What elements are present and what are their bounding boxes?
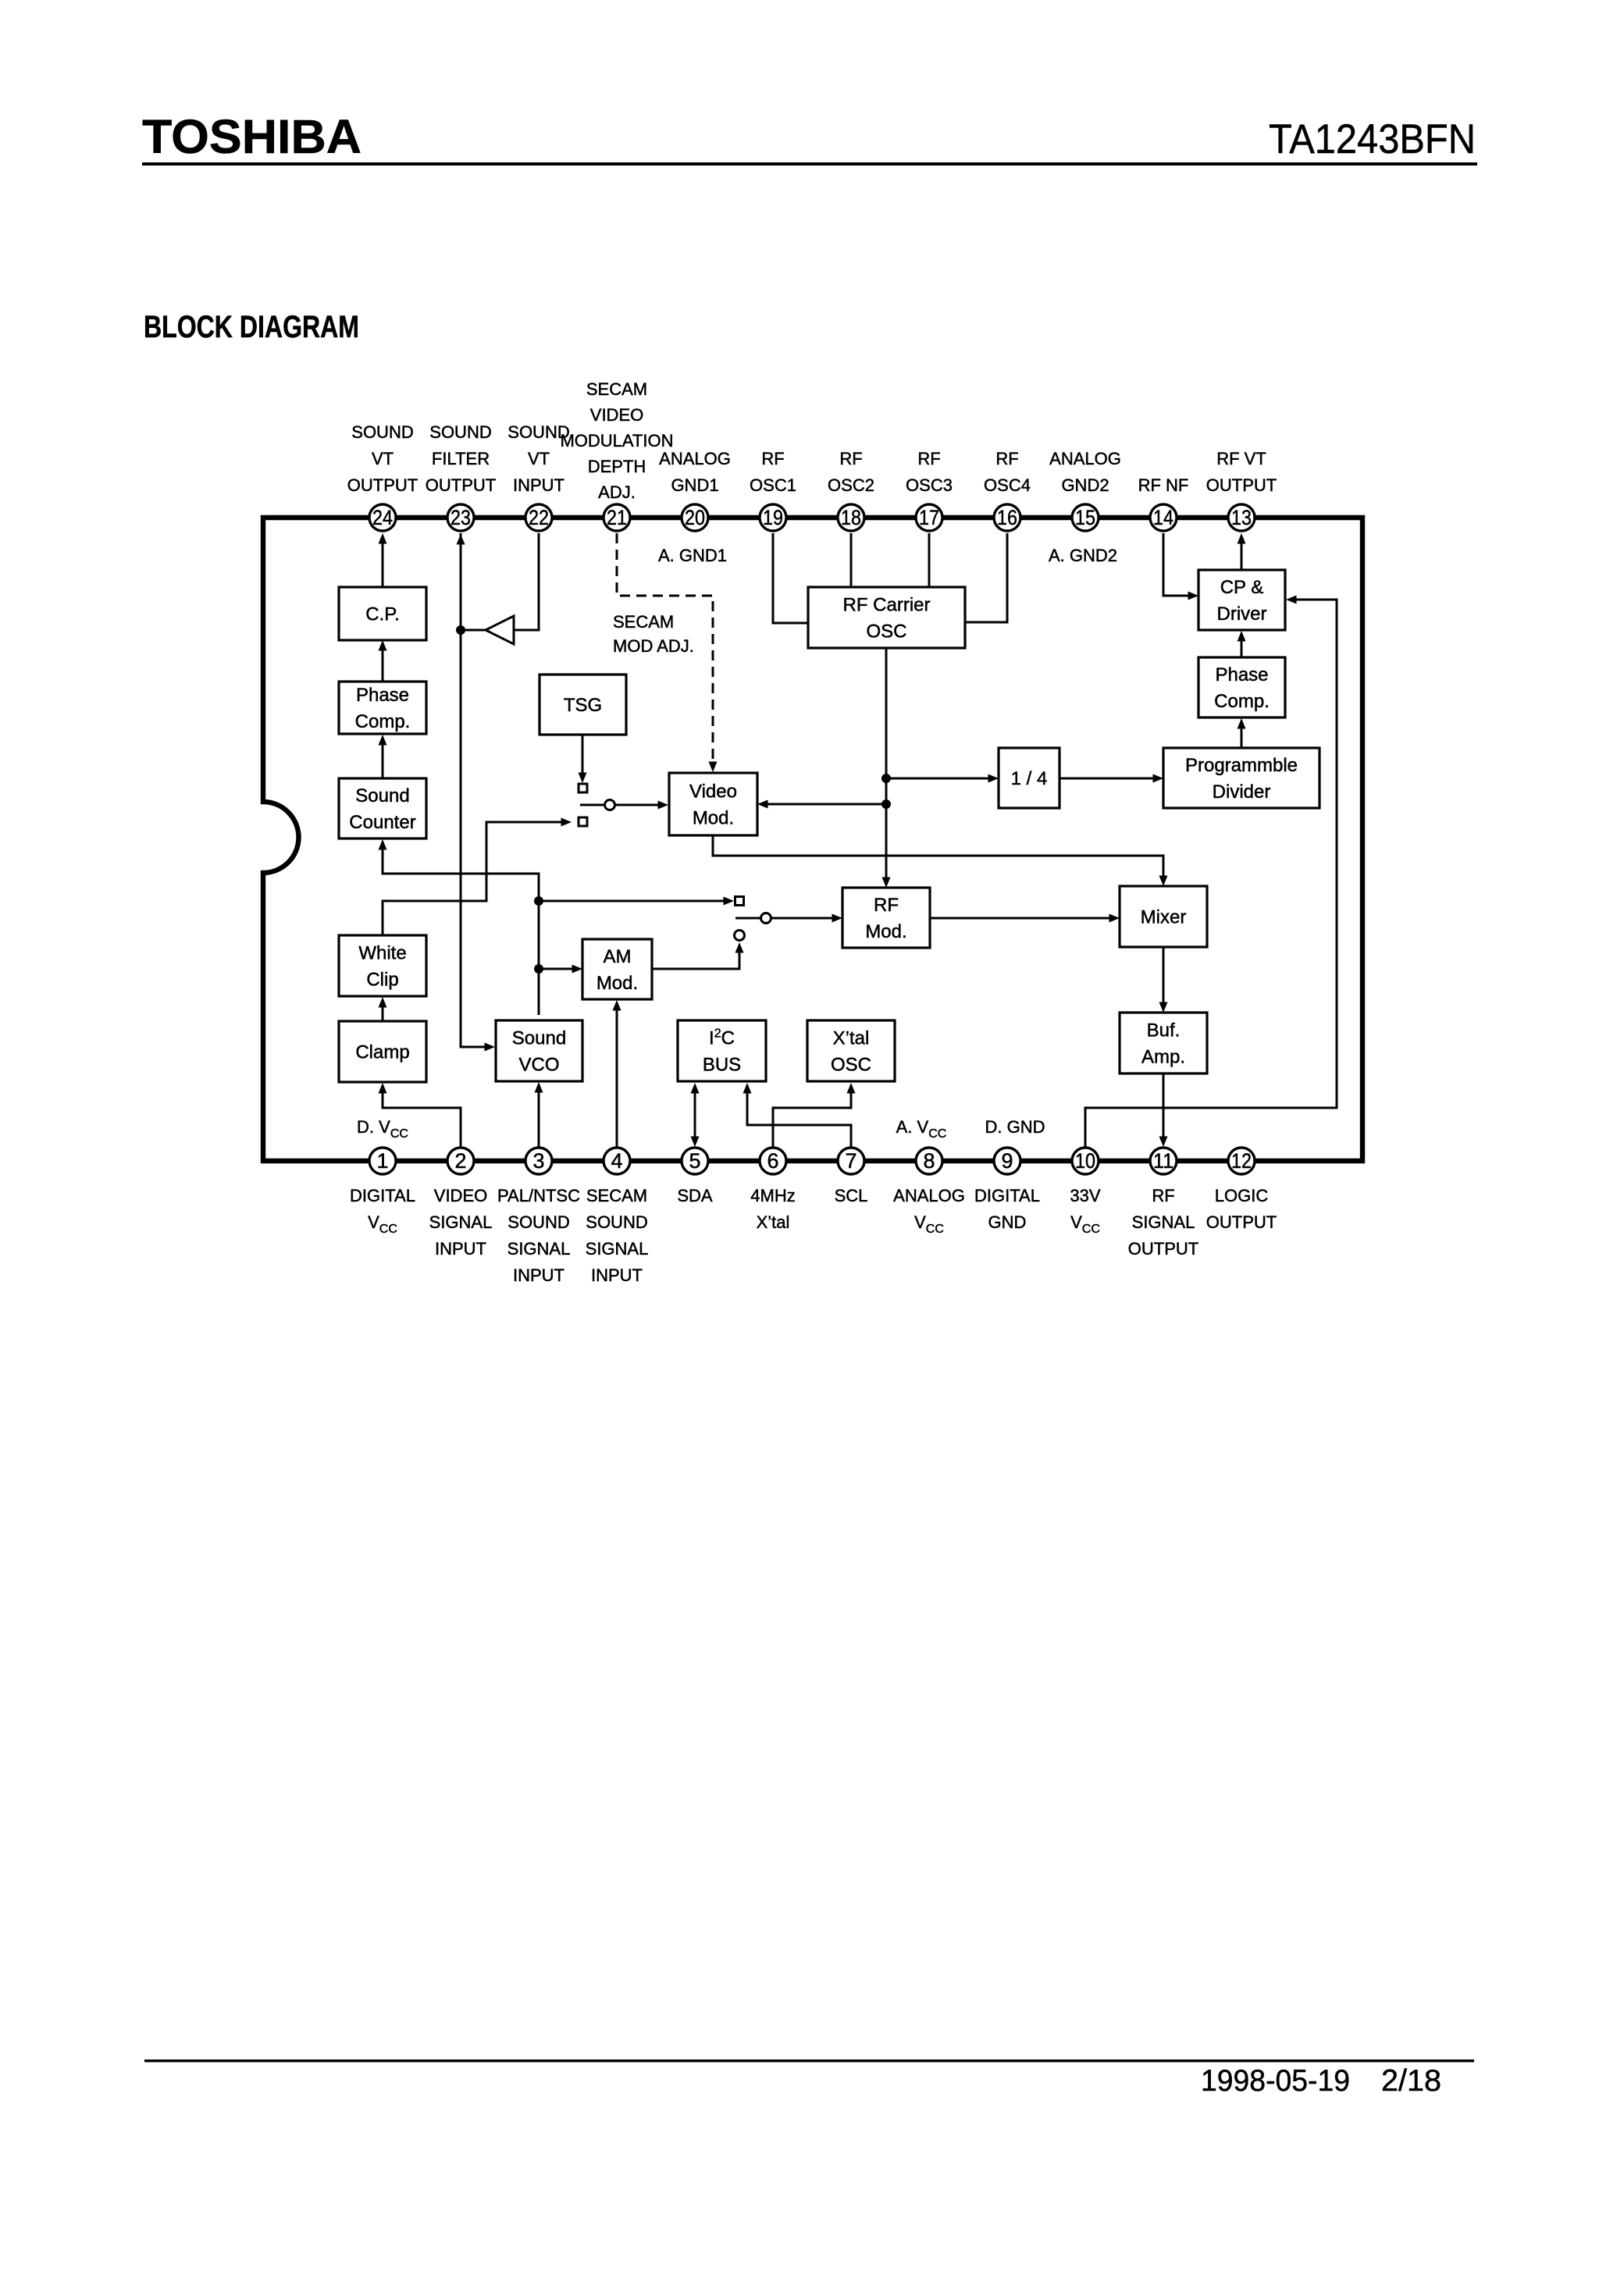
svg-text:OSC: OSC	[866, 621, 906, 643]
svg-text:RF VT: RF VT	[1216, 449, 1266, 468]
net label A. GND2	[1049, 546, 1117, 565]
svg-text:RF: RF	[839, 449, 862, 468]
wire Mixer to Buf. Amp.	[1159, 947, 1168, 1013]
svg-text:22: 22	[529, 506, 549, 529]
pin 1 label DIGITAL VCC	[350, 1186, 415, 1236]
svg-text:9: 9	[1001, 1149, 1013, 1173]
wire Clamp to White Clip	[379, 997, 387, 1021]
block Sound VCO	[496, 1020, 582, 1081]
svg-text:SECAM: SECAM	[613, 612, 674, 632]
wire Buf. Amp. to pin 11	[1159, 1073, 1168, 1147]
pin 11	[1150, 1148, 1177, 1174]
svg-text:GND1: GND1	[671, 475, 718, 495]
svg-text:CP &: CP &	[1220, 577, 1264, 598]
pin 21 label SECAM VIDEO MODULATION DEPTH ADJ.	[560, 379, 673, 502]
pin 17 label RF OSC3	[906, 449, 953, 495]
svg-text:16: 16	[997, 506, 1017, 529]
svg-text:Comp.: Comp.	[1214, 691, 1270, 712]
block Phase Comp. left	[339, 682, 426, 734]
pin 2	[447, 1148, 474, 1174]
svg-text:DIGITAL: DIGITAL	[350, 1186, 415, 1205]
svg-text:OSC: OSC	[831, 1055, 871, 1076]
pin 19 label RF OSC1	[750, 449, 796, 495]
svg-text:3: 3	[532, 1149, 544, 1173]
wire RF switch lever to RF Mod.	[735, 914, 842, 923]
block TSG	[540, 675, 626, 735]
pin 1	[369, 1148, 396, 1174]
block AM Mod.	[582, 939, 652, 999]
svg-text:ANALOG: ANALOG	[893, 1186, 965, 1205]
svg-text:Mixer: Mixer	[1141, 907, 1187, 928]
svg-text:VIDEO: VIDEO	[590, 405, 643, 425]
pin 7	[838, 1148, 864, 1174]
pin 3 label PAL/NTSC SOUND SIGNAL INPUT	[497, 1186, 580, 1285]
pin 3	[525, 1148, 552, 1174]
svg-text:OUTPUT: OUTPUT	[1206, 1212, 1277, 1232]
block White Clip	[339, 935, 426, 996]
wire pin 16 to RF Carrier OSC	[965, 533, 1007, 622]
svg-text:24: 24	[372, 506, 393, 529]
pin 7 label SCL	[835, 1186, 868, 1205]
svg-text:BLOCK DIAGRAM: BLOCK DIAGRAM	[144, 310, 359, 344]
svg-text:Driver: Driver	[1217, 603, 1267, 625]
svg-text:INPUT: INPUT	[435, 1239, 486, 1258]
svg-text:Sound: Sound	[355, 785, 409, 806]
wire RF Mod. to Mixer	[930, 914, 1120, 923]
wire Sound VCO to Sound Counter	[379, 839, 540, 1015]
block X'tal OSC	[807, 1020, 895, 1081]
svg-text:TOSHIBA: TOSHIBA	[142, 110, 361, 163]
wire pin 22 to buffer	[515, 533, 539, 630]
svg-text:VT: VT	[528, 449, 550, 468]
svg-text:A. GND1: A. GND1	[658, 546, 727, 565]
svg-text:OUTPUT: OUTPUT	[1206, 475, 1277, 495]
pin 15 label ANALOG GND2	[1049, 449, 1121, 495]
wire Video Mod. to Mixer	[713, 835, 1168, 886]
wire pin 5 to I2C BUS bidirectional	[691, 1083, 700, 1147]
svg-text:18: 18	[841, 506, 861, 529]
svg-text:SIGNAL: SIGNAL	[429, 1212, 493, 1232]
wire AM Mod. to RF switch contact	[652, 942, 744, 969]
svg-text:23: 23	[451, 506, 471, 529]
svg-text:RF: RF	[1152, 1186, 1174, 1205]
block 1/4 divider	[999, 748, 1060, 808]
pin 11 label RF SIGNAL OUTPUT	[1128, 1186, 1198, 1258]
pin 13 label RF VT OUTPUT	[1206, 449, 1277, 495]
svg-text:OUTPUT: OUTPUT	[426, 475, 496, 495]
svg-text:Mod.: Mod.	[865, 921, 906, 942]
svg-text:SOUND: SOUND	[586, 1212, 647, 1232]
video switch lever pivot	[605, 800, 615, 810]
wire pin 17 to RF Carrier OSC	[928, 533, 931, 587]
pin 12	[1228, 1148, 1255, 1174]
svg-text:FILTER: FILTER	[432, 449, 490, 468]
svg-text:SOUND: SOUND	[507, 1212, 569, 1232]
pin 21	[604, 504, 630, 531]
svg-text:10: 10	[1075, 1149, 1095, 1173]
svg-text:6: 6	[767, 1149, 778, 1173]
svg-text:ANALOG: ANALOG	[1049, 449, 1121, 468]
svg-text:I2C: I2C	[709, 1027, 735, 1049]
svg-text:GND2: GND2	[1061, 475, 1109, 495]
pin 23	[447, 504, 474, 531]
svg-text:INPUT: INPUT	[513, 475, 564, 495]
svg-text:ADJ.: ADJ.	[598, 482, 636, 502]
svg-text:11: 11	[1153, 1149, 1173, 1173]
svg-text:BUS: BUS	[703, 1055, 741, 1076]
svg-text:TSG: TSG	[564, 695, 602, 716]
svg-text:15: 15	[1075, 506, 1095, 529]
svg-text:X’tal: X’tal	[833, 1028, 870, 1049]
svg-text:AM: AM	[604, 946, 632, 967]
svg-text:Divider: Divider	[1213, 781, 1271, 803]
block Mixer	[1120, 886, 1207, 947]
dashed wire pin 21 SECAM mod adj to Video Mod.	[617, 533, 718, 772]
svg-text:SIGNAL: SIGNAL	[507, 1239, 571, 1258]
junction dot buffer output	[456, 625, 465, 635]
svg-text:12: 12	[1231, 1149, 1252, 1173]
wire pin 10 33V feedback to CP & Driver	[1085, 596, 1337, 1148]
svg-text:GND: GND	[988, 1212, 1027, 1232]
svg-text:Mod.: Mod.	[693, 808, 734, 829]
svg-text:RF: RF	[995, 449, 1018, 468]
wire sound line to RF switch contact	[539, 897, 734, 906]
pin 10	[1072, 1148, 1099, 1174]
pin 16 label RF OSC4	[984, 449, 1031, 495]
svg-text:13: 13	[1231, 506, 1252, 529]
wire I2C BUS to pin 7 SCL	[743, 1083, 852, 1147]
svg-text:Counter: Counter	[349, 812, 415, 833]
video switch contact from White Clip	[579, 817, 587, 826]
svg-text:MOD ADJ.: MOD ADJ.	[613, 636, 694, 656]
net label D. GND	[985, 1117, 1045, 1137]
pin 2 label VIDEO SIGNAL INPUT	[429, 1186, 493, 1258]
wire RF Carrier OSC to RF Mod.	[882, 648, 891, 888]
pin 22	[525, 504, 552, 531]
wire Programmble Divider to Phase Comp.	[1238, 718, 1246, 748]
pin 8 label ANALOG VCC	[893, 1186, 965, 1236]
pin 5 label SDA	[677, 1186, 713, 1205]
part number TA1243BFN	[1269, 116, 1476, 162]
svg-text:Mod.: Mod.	[597, 973, 638, 994]
svg-text:VCO: VCO	[518, 1055, 559, 1076]
svg-text:20: 20	[685, 506, 705, 529]
svg-text:RF: RF	[761, 449, 784, 468]
net label SECAM MOD ADJ.	[613, 612, 694, 656]
wire buffer output stub	[461, 629, 486, 632]
svg-text:OSC2: OSC2	[828, 475, 874, 495]
svg-text:SOUND: SOUND	[351, 422, 413, 442]
svg-text:Phase: Phase	[356, 685, 409, 706]
svg-text:INPUT: INPUT	[513, 1266, 564, 1285]
wire pin 19 to RF Carrier OSC	[773, 533, 808, 623]
footer rule	[144, 2059, 1474, 2062]
svg-text:SCL: SCL	[835, 1186, 868, 1205]
pin 13	[1228, 504, 1255, 531]
svg-text:OSC1: OSC1	[750, 475, 796, 495]
Toshiba logo text	[142, 110, 361, 163]
svg-text:OSC3: OSC3	[906, 475, 953, 495]
svg-text:1998-05-19: 1998-05-19	[1201, 2064, 1350, 2098]
wire Phase Comp. to CP & Driver	[1238, 631, 1246, 657]
wire carrier to 1/4 divider	[886, 774, 999, 783]
IC body outline with index notch	[263, 518, 1362, 1161]
junction dot carrier to divider	[881, 774, 891, 783]
title BLOCK DIAGRAM	[144, 310, 359, 344]
RF switch contact from sound line	[735, 897, 744, 906]
pin 19	[760, 504, 786, 531]
svg-text:7: 7	[845, 1149, 857, 1173]
pin 20	[682, 504, 708, 531]
svg-text:5: 5	[689, 1149, 700, 1173]
svg-text:8: 8	[923, 1149, 935, 1173]
svg-text:TA1243BFN: TA1243BFN	[1269, 116, 1476, 162]
svg-text:DEPTH: DEPTH	[588, 457, 646, 476]
footer date and page	[1201, 2064, 1441, 2098]
svg-text:ANALOG: ANALOG	[659, 449, 731, 468]
svg-text:DIGITAL: DIGITAL	[974, 1186, 1040, 1205]
junction dot sound line upper	[534, 896, 543, 906]
wire Sound Counter to Phase Comp.	[379, 735, 387, 778]
video switch contact from TSG	[579, 784, 587, 792]
svg-text:21: 21	[607, 506, 627, 529]
header rule	[142, 162, 1477, 166]
pin 8	[916, 1148, 942, 1174]
svg-text:SIGNAL: SIGNAL	[1132, 1212, 1195, 1232]
svg-text:OUTPUT: OUTPUT	[347, 475, 418, 495]
svg-text:14: 14	[1153, 506, 1173, 529]
svg-text:Clip: Clip	[366, 970, 398, 991]
pin 16	[994, 504, 1020, 531]
pin 14 label RF NF	[1138, 475, 1189, 495]
svg-text:SDA: SDA	[677, 1186, 713, 1205]
pin 18 label RF OSC2	[828, 449, 874, 495]
junction dot sound line lower	[534, 964, 543, 974]
svg-text:Sound: Sound	[512, 1028, 566, 1049]
wire pin 3 to Sound VCO	[535, 1082, 543, 1147]
pin 10 label 33V VCC	[1070, 1186, 1100, 1236]
pin 17	[916, 504, 942, 531]
svg-text:4MHz: 4MHz	[750, 1186, 795, 1205]
block Video Mod.	[669, 773, 757, 835]
block CP & Driver	[1198, 570, 1285, 630]
svg-text:2/18: 2/18	[1381, 2064, 1441, 2098]
svg-text:MODULATION: MODULATION	[560, 431, 673, 450]
net label A. GND1	[658, 546, 727, 565]
wire 1/4 to Programmble Divider	[1060, 774, 1163, 783]
RF switch contact from AM Mod.	[735, 931, 745, 941]
pin 5	[682, 1148, 708, 1174]
pin 6 label 4MHz X'tal	[750, 1186, 795, 1232]
svg-text:Buf.: Buf.	[1147, 1020, 1181, 1041]
RF switch lever pivot	[761, 913, 771, 924]
pin 15	[1072, 504, 1099, 531]
pin 4	[604, 1148, 630, 1174]
block Phase Comp. right	[1198, 657, 1285, 717]
pin 24 label SOUND VT OUTPUT	[347, 422, 418, 495]
pin 4 label SECAM SOUND SIGNAL INPUT	[586, 1186, 649, 1285]
svg-text:X’tal: X’tal	[757, 1212, 790, 1232]
svg-text:RF NF: RF NF	[1138, 475, 1189, 495]
wire pin 23 to Sound VCO	[457, 533, 496, 1052]
svg-text:Video: Video	[689, 781, 737, 803]
net label A. VCC	[896, 1117, 947, 1141]
wire sound line to AM Mod.	[539, 965, 582, 974]
wire pin 4 to AM Mod.	[613, 1000, 621, 1147]
svg-text:33V: 33V	[1070, 1186, 1100, 1205]
pin 23 label SOUND FILTER OUTPUT	[426, 422, 496, 495]
svg-text:PAL/NTSC: PAL/NTSC	[497, 1186, 580, 1205]
svg-text:C.P.: C.P.	[365, 604, 400, 625]
pin 20 label ANALOG GND1	[659, 449, 731, 495]
pin 12 label LOGIC OUTPUT	[1206, 1186, 1277, 1232]
svg-text:Amp.: Amp.	[1141, 1047, 1185, 1068]
svg-text:OSC4: OSC4	[984, 475, 1031, 495]
svg-text:Clamp: Clamp	[355, 1042, 409, 1063]
pin 14	[1150, 504, 1177, 531]
wire TSG to video switch contact	[579, 735, 587, 783]
svg-text:RF: RF	[874, 895, 899, 916]
wire Phase Comp. to C.P.	[379, 640, 387, 682]
block Programmble Divider	[1163, 748, 1319, 808]
svg-text:VIDEO: VIDEO	[434, 1186, 487, 1205]
block Clamp	[339, 1021, 426, 1082]
svg-text:2: 2	[454, 1149, 466, 1173]
svg-text:A. GND2: A. GND2	[1049, 546, 1117, 565]
wire C.P. to pin 24	[379, 533, 387, 587]
block RF Carrier OSC	[808, 587, 965, 648]
svg-text:VT: VT	[372, 449, 394, 468]
svg-text:1 / 4: 1 / 4	[1011, 768, 1048, 789]
svg-text:1: 1	[376, 1149, 388, 1173]
svg-text:4: 4	[611, 1149, 622, 1173]
svg-text:White: White	[358, 943, 406, 964]
wire video switch lever to Video Mod.	[580, 801, 668, 810]
pin 18	[838, 504, 864, 531]
svg-text:Programmble: Programmble	[1185, 755, 1298, 776]
wire pin 2 to Clamp	[379, 1083, 461, 1147]
buffer amplifier triangle	[486, 616, 514, 644]
svg-text:D. GND: D. GND	[985, 1117, 1045, 1137]
svg-text:INPUT: INPUT	[591, 1266, 643, 1285]
wire pin 14 to CP & Driver	[1163, 533, 1198, 600]
svg-text:SOUND: SOUND	[429, 422, 491, 442]
pin 9	[994, 1148, 1020, 1174]
svg-text:Phase: Phase	[1215, 664, 1268, 685]
block I2C BUS	[678, 1020, 766, 1081]
svg-text:RF: RF	[917, 449, 940, 468]
svg-text:17: 17	[919, 506, 939, 529]
wire CP & Driver to pin 13	[1238, 533, 1246, 570]
pin 9 label DIGITAL GND	[974, 1186, 1040, 1232]
net label D. VCC	[357, 1117, 408, 1141]
pin 6	[760, 1148, 786, 1174]
svg-text:Comp.: Comp.	[355, 711, 411, 732]
wire carrier to Video Mod.	[757, 800, 886, 809]
pin 22 label SOUND VT INPUT	[507, 422, 569, 495]
wire X'tal OSC to pin 6	[773, 1083, 856, 1147]
svg-text:OUTPUT: OUTPUT	[1128, 1239, 1198, 1258]
block C.P.	[339, 587, 426, 640]
svg-text:RF Carrier: RF Carrier	[843, 595, 931, 616]
block Buf. Amp.	[1120, 1013, 1207, 1073]
svg-text:LOGIC: LOGIC	[1215, 1186, 1269, 1205]
svg-text:SECAM: SECAM	[586, 379, 647, 399]
block RF Mod.	[842, 888, 930, 948]
junction dot carrier to video mod	[881, 799, 891, 809]
svg-text:SIGNAL: SIGNAL	[586, 1239, 649, 1258]
wire pin 18 to RF Carrier OSC	[850, 533, 853, 587]
pin 24	[369, 504, 396, 531]
svg-text:19: 19	[763, 506, 783, 529]
svg-text:SECAM: SECAM	[586, 1186, 647, 1205]
block Sound Counter	[339, 778, 426, 838]
wire White Clip to video switch contact	[383, 818, 572, 936]
